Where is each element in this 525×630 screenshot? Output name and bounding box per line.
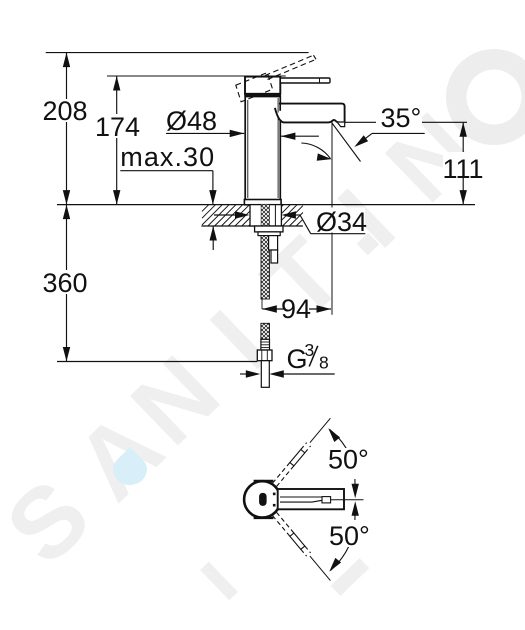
watermark O ring	[446, 49, 525, 145]
svg-text:360: 360	[42, 268, 87, 298]
shank housing	[250, 205, 281, 226]
svg-text:8: 8	[319, 353, 329, 373]
hinge dot lower	[273, 504, 276, 507]
deck bottom line	[201, 225, 303, 227]
handle bar top view	[278, 489, 344, 509]
dimension 174	[116, 76, 118, 205]
hose braid lower	[261, 323, 270, 339]
stream 35deg diagonal	[332, 123, 361, 162]
dashed lever raised	[265, 55, 314, 75]
dimension 94	[261, 299, 263, 309]
fixing bolt lower	[271, 250, 278, 263]
208 top reference line	[46, 52, 309, 54]
35deg arc	[301, 143, 330, 159]
threaded shank braid	[261, 205, 269, 226]
outlet level reference line	[345, 121, 376, 123]
deck top line	[57, 204, 475, 206]
cartridge slot	[259, 493, 267, 506]
svg-text:94: 94	[281, 294, 311, 324]
watermark fragment lower right	[331, 558, 369, 596]
body edge through spout root	[279, 103, 281, 111]
bottom flat	[254, 517, 274, 519]
35deg label	[376, 105, 422, 126]
cap bottom band	[244, 93, 281, 96]
dimension 111	[462, 122, 464, 204]
lever handle	[280, 78, 330, 83]
svg-text:Ø34: Ø34	[316, 207, 367, 237]
svg-text:208: 208	[42, 96, 87, 126]
watermark drop	[113, 447, 147, 485]
handle cap	[245, 77, 280, 94]
aerator tip	[338, 123, 345, 127]
dimension 208	[66, 53, 68, 205]
svg-text:174: 174	[95, 112, 140, 142]
svg-text:max.30: max.30	[120, 142, 215, 172]
top flat	[254, 480, 274, 482]
watermark small diamond	[357, 233, 380, 256]
360 bottom reference line	[57, 361, 257, 363]
lever tip separator	[319, 78, 321, 82]
deck hatching	[202, 205, 209, 212]
G3/8 arrows	[240, 373, 250, 375]
dashed cap raised	[236, 73, 273, 102]
dimension 50deg upper	[330, 429, 355, 469]
svg-text:50°: 50°	[328, 445, 369, 475]
hose nut	[257, 350, 272, 361]
outlet vertical line	[331, 121, 333, 315]
hinge dot upper	[273, 493, 276, 496]
dimension diameter 34	[214, 214, 236, 216]
base flange	[244, 200, 281, 205]
svg-text:111: 111	[442, 154, 483, 184]
connection pipe	[261, 361, 269, 388]
svg-text:35°: 35°	[381, 103, 422, 133]
dimension 360	[66, 205, 68, 362]
body inner line right	[277, 98, 279, 198]
hose ferrule	[261, 339, 270, 350]
faucet body	[245, 97, 280, 201]
dashed lever position lower	[277, 512, 294, 533]
dimension 50deg lower	[331, 530, 355, 571]
svg-text:50°: 50°	[329, 521, 370, 551]
handle slot	[280, 496, 322, 498]
washer step	[258, 232, 280, 236]
top view circle	[244, 481, 280, 517]
watermark fragment lower left	[200, 562, 238, 601]
body inner line left	[247, 100, 249, 198]
spout	[275, 104, 345, 123]
svg-text:Ø48: Ø48	[166, 106, 217, 136]
35deg leader arrow	[372, 132, 425, 134]
fixing bolt	[269, 236, 278, 250]
washer	[255, 226, 283, 232]
hose braid upper	[261, 236, 269, 299]
174 reference line	[107, 75, 286, 77]
dashed lever position upper	[273, 463, 290, 484]
axis line	[331, 499, 364, 501]
shank inner lines	[260, 205, 262, 226]
